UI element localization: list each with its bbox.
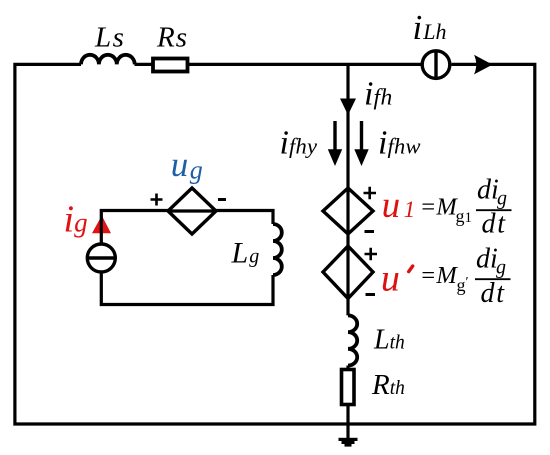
- arrow ifhy: [328, 121, 342, 166]
- current source ig circle: [87, 244, 115, 272]
- svg-text:dt: dt: [482, 209, 507, 240]
- arrow ifhw: [354, 121, 368, 166]
- resistor Rs: [153, 59, 188, 72]
- wire middle vertical from top to diamond U1: [346, 64, 349, 188]
- svg-text:dt: dt: [481, 278, 506, 309]
- svg-text:ug: ug: [171, 145, 203, 185]
- arrow on top wire pointing right: [474, 55, 493, 75]
- wire below U' to inductor Lth: [346, 299, 349, 316]
- svg-text:ifhy: ifhy: [280, 125, 318, 162]
- svg-text:di: di: [477, 175, 499, 206]
- resistor Rth: [342, 370, 355, 405]
- minus sign of U1: [365, 230, 375, 233]
- svg-text:g: g: [497, 188, 507, 210]
- svg-text:ifh: ifh: [364, 76, 393, 113]
- plus sign of U1: [364, 187, 377, 199]
- svg-text:iLh: iLh: [413, 8, 447, 47]
- svg-text:Rth: Rth: [371, 369, 405, 401]
- wire between U1 and U': [346, 234, 349, 246]
- ground: [339, 438, 358, 447]
- wire top segment between Ls and Rs: [135, 63, 152, 66]
- svg-text:Lg: Lg: [231, 237, 260, 270]
- svg-text:Rs: Rs: [156, 22, 188, 54]
- inner loop wires: [101, 211, 273, 305]
- dependent source U1 diamond: [323, 188, 373, 234]
- svg-text:g: g: [496, 257, 506, 279]
- inductor Ls: [81, 55, 135, 65]
- red arrow ig pointing up: [92, 216, 111, 234]
- dependent source ug diamond: [168, 188, 216, 234]
- svg-text:di: di: [476, 243, 498, 274]
- inductor Lg: [273, 224, 282, 275]
- plus sign of ug: [151, 194, 163, 206]
- wire top segment between Rs and iLh source: [189, 63, 421, 66]
- wire from Rth through bottom wire to ground: [346, 405, 349, 439]
- minus sign of U': [366, 293, 376, 296]
- svg-text:ig: ig: [64, 199, 88, 241]
- svg-text:g1: g1: [456, 206, 473, 226]
- current source iLh: [422, 51, 450, 79]
- inductor Lth: [348, 315, 357, 365]
- svg-text:u1: u1: [382, 185, 416, 226]
- svg-text:Ls: Ls: [94, 22, 125, 54]
- svg-text:g′: g′: [457, 275, 469, 295]
- minus sign of ug: [218, 198, 226, 201]
- wire between Lth and Rth: [346, 366, 349, 370]
- svg-text:ifhw: ifhw: [378, 125, 421, 162]
- formula =Mg' dig/dt: [420, 243, 511, 309]
- svg-text:=M: =M: [420, 262, 459, 289]
- dependent source U' diamond: [323, 246, 373, 299]
- svg-text:Lth: Lth: [373, 325, 405, 356]
- svg-text:u: u: [381, 258, 400, 300]
- plus sign of U': [365, 248, 378, 260]
- svg-text:=M: =M: [420, 193, 459, 220]
- arrow ifh on vertical wire: [340, 99, 356, 116]
- wire outer loop: [15, 64, 535, 424]
- formula =Mg1 dig/dt: [420, 175, 512, 240]
